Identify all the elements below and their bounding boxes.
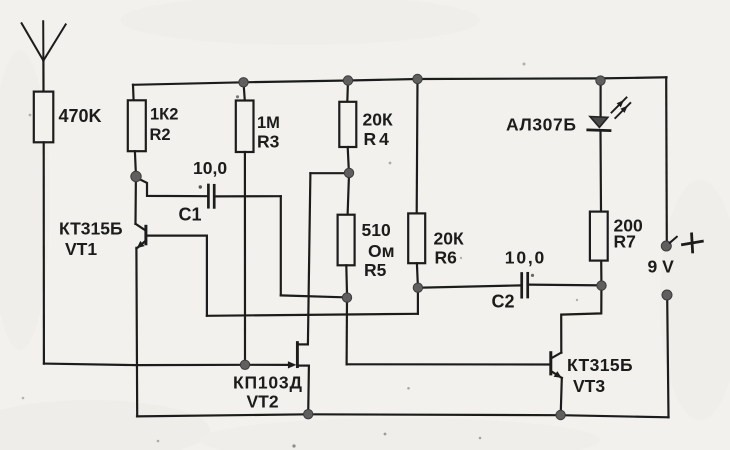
svg-text:R4: R4 — [364, 129, 392, 149]
svg-text:КТ315Б: КТ315Б — [59, 218, 123, 238]
svg-text:20К: 20К — [363, 109, 393, 129]
svg-text:КП103Д: КП103Д — [233, 372, 303, 392]
svg-text:9 V: 9 V — [648, 256, 675, 276]
svg-text:VT2: VT2 — [247, 392, 279, 412]
svg-text:R6: R6 — [435, 247, 458, 267]
svg-text:VT1: VT1 — [65, 239, 97, 259]
svg-text:1М: 1М — [257, 114, 280, 132]
svg-text:C2: C2 — [492, 292, 515, 312]
svg-text:1К2: 1К2 — [150, 105, 178, 123]
svg-text:VT3: VT3 — [573, 376, 605, 396]
svg-text:10,0: 10,0 — [505, 248, 546, 268]
svg-text:R5: R5 — [364, 260, 387, 280]
svg-text:20К: 20К — [434, 229, 464, 249]
svg-text:10,0: 10,0 — [193, 158, 227, 178]
svg-text:Ом: Ом — [368, 241, 395, 261]
svg-text:R2: R2 — [150, 126, 171, 144]
svg-text:510: 510 — [362, 220, 391, 240]
svg-text:C1: C1 — [179, 205, 202, 225]
svg-text:R3: R3 — [257, 132, 280, 152]
svg-text:470K: 470K — [59, 106, 102, 126]
svg-text:R7: R7 — [614, 232, 636, 252]
svg-text:КТ315Б: КТ315Б — [567, 355, 633, 375]
svg-text:АЛ307Б: АЛ307Б — [506, 115, 577, 135]
